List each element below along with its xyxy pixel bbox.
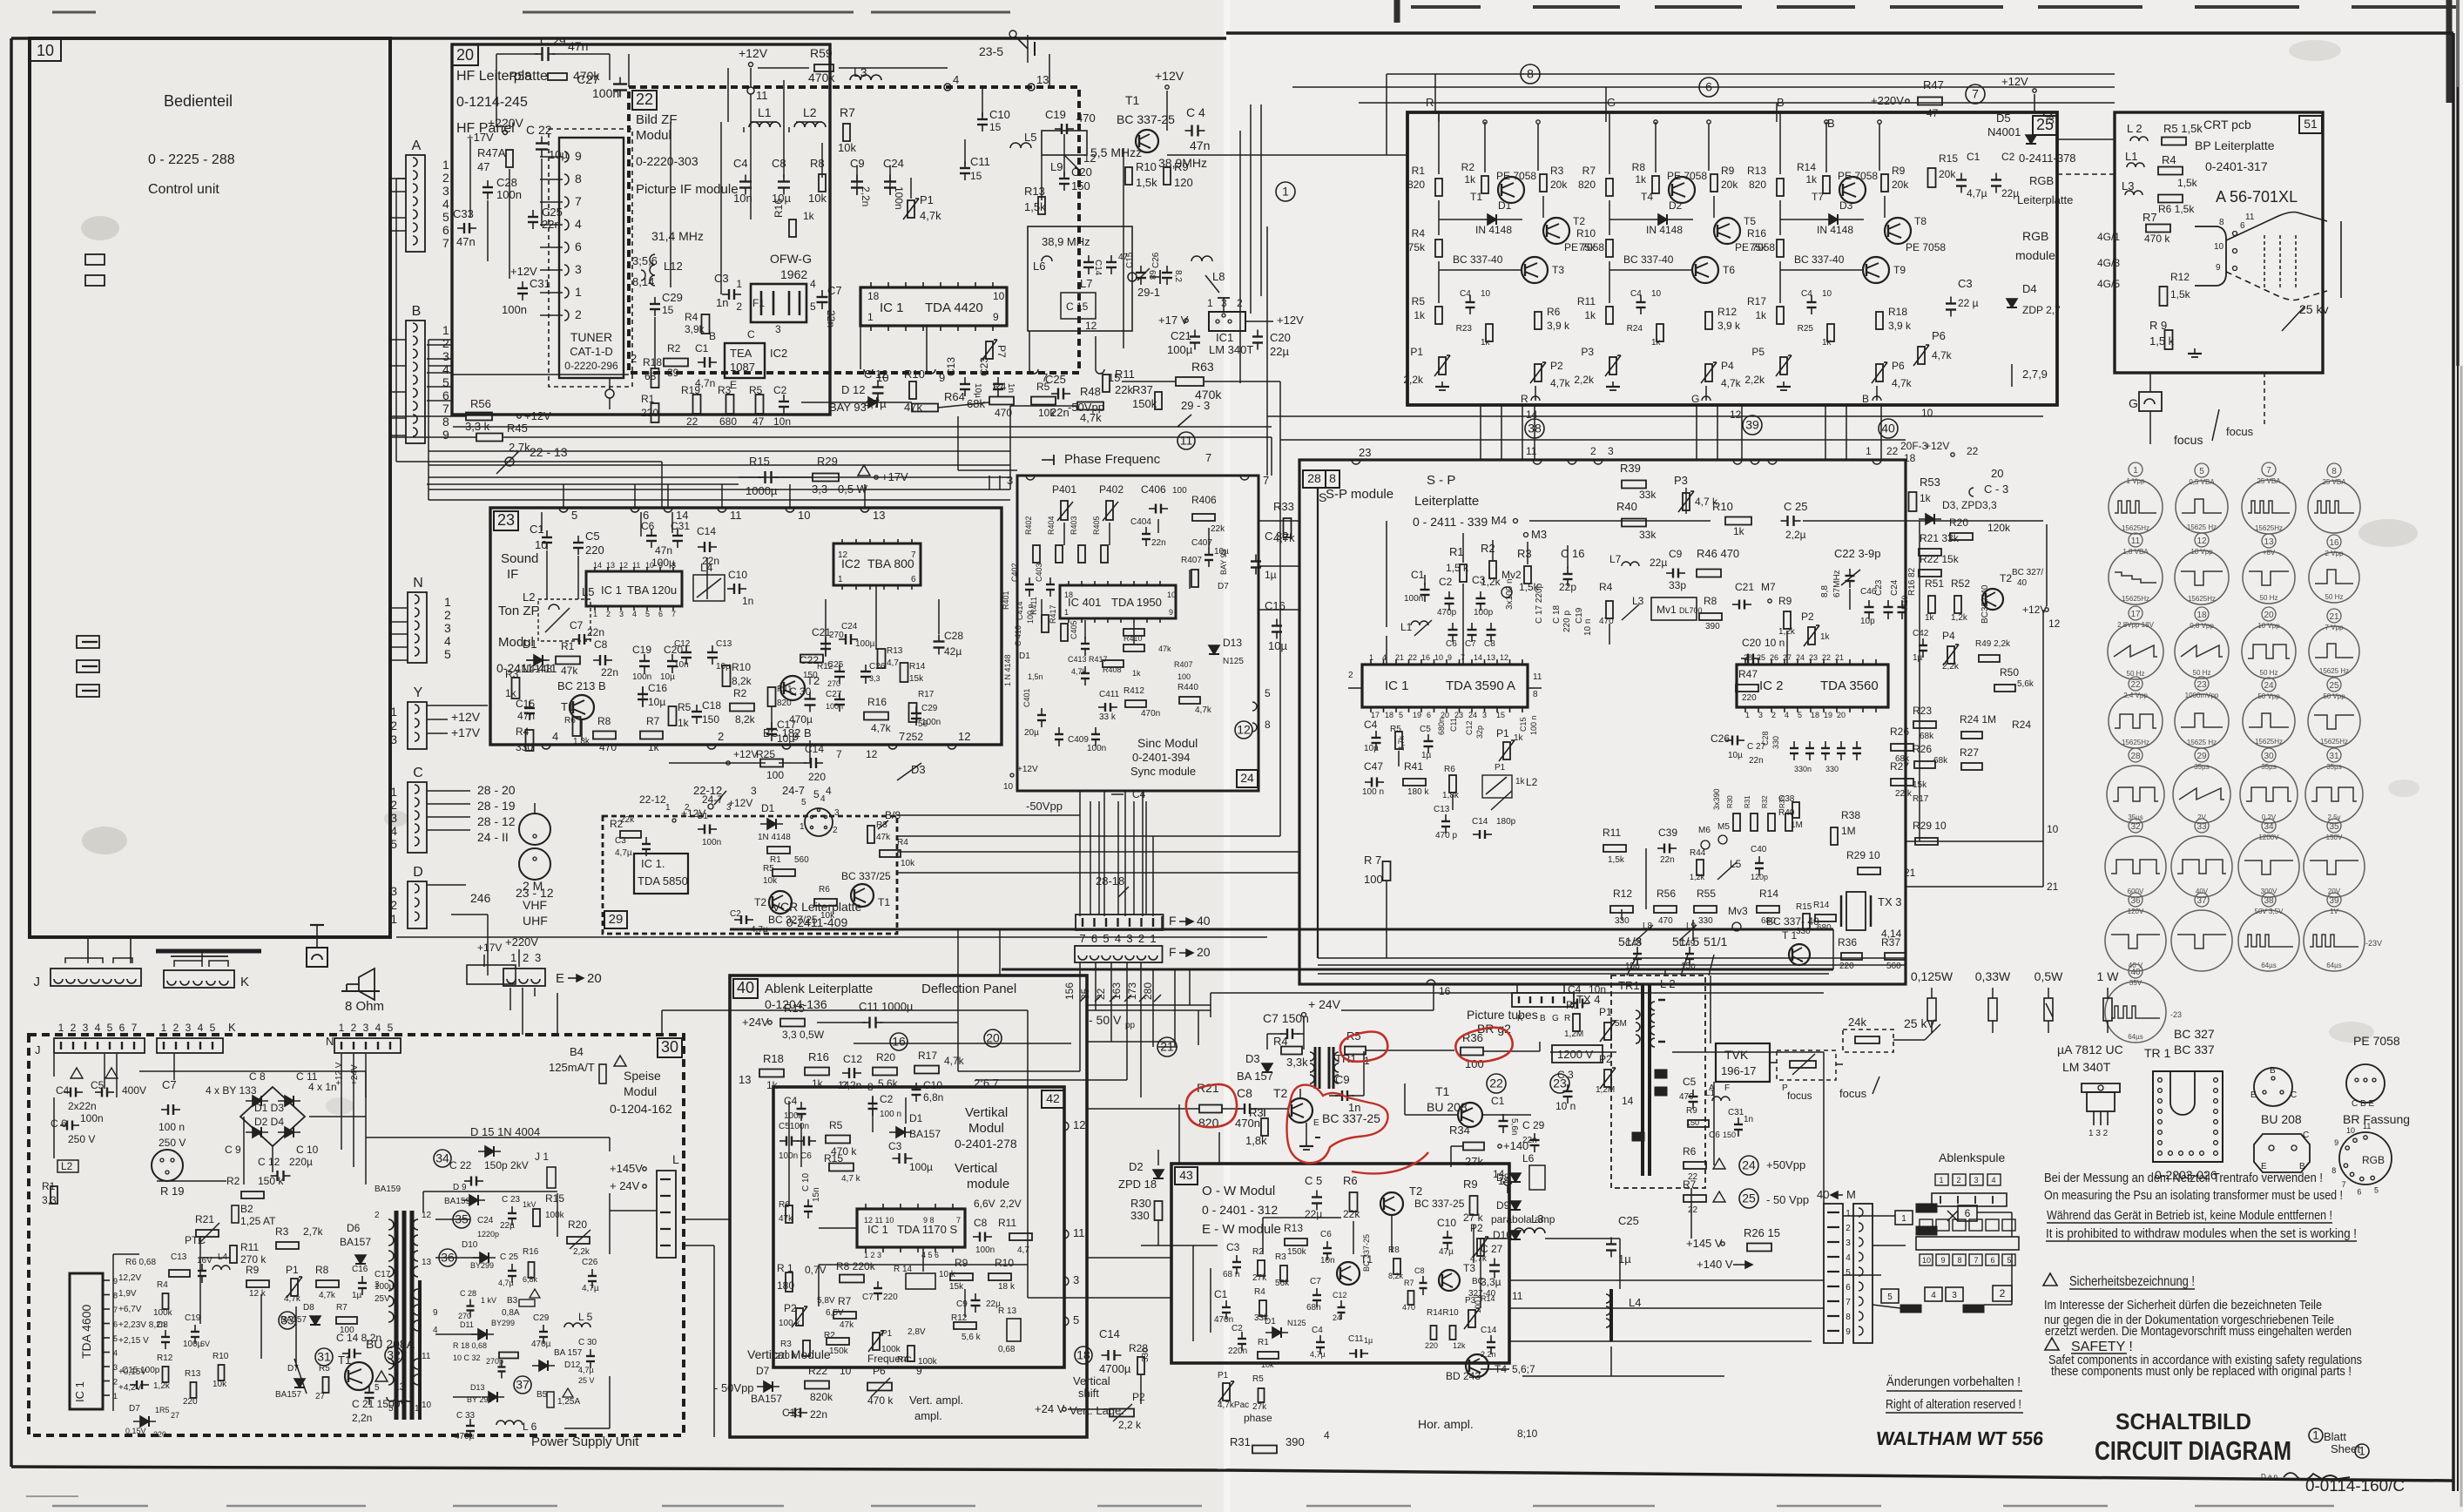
- svg-text:10k: 10k: [1038, 407, 1056, 419]
- IC1 TDA 1170 S: [857, 1209, 965, 1247]
- tuner bottom pin: [605, 389, 614, 398]
- svg-text:R51: R51: [1925, 577, 1944, 590]
- coil L1 crt: [2127, 163, 2144, 167]
- svg-text:R36: R36: [1838, 936, 1857, 948]
- svg-text:18: 18: [998, 1282, 1009, 1292]
- svg-text:3: 3: [1974, 1176, 1978, 1185]
- svg-text:Mv1: Mv1: [1657, 604, 1677, 616]
- svg-text:C27: C27: [826, 690, 842, 699]
- svg-text:C15: C15: [1519, 717, 1528, 732]
- C7 22n cap: [817, 296, 828, 298]
- wire from box10 to J: [87, 937, 89, 963]
- svg-text:R12: R12: [1717, 306, 1737, 318]
- svg-text:C: C: [413, 766, 423, 780]
- R410 R408 1k 47k cluster: [1124, 629, 1144, 636]
- wires HF panel to module 22: [496, 54, 497, 127]
- svg-text:22n: 22n: [587, 626, 604, 638]
- svg-text:IC 1: IC 1: [880, 300, 904, 315]
- svg-text:Hor. ampl.: Hor. ampl.: [1418, 1417, 1474, 1431]
- svg-text:IC2: IC2: [770, 347, 787, 360]
- HF panel internal verticals: [469, 139, 471, 218]
- R3 47k R4 10k: [867, 826, 874, 843]
- connector E-20: [503, 969, 545, 986]
- transistor T1 PE7058: [1498, 177, 1524, 203]
- svg-text:R10: R10: [1136, 160, 1157, 173]
- svg-text:L1: L1: [2125, 150, 2137, 163]
- svg-text:L2: L2: [803, 105, 817, 119]
- svg-text:TDA 4600: TDA 4600: [79, 1305, 93, 1359]
- svg-text:10: 10: [840, 1365, 852, 1377]
- svg-text:9: 9: [113, 1277, 118, 1286]
- svg-text:1R5: 1R5: [155, 1406, 170, 1414]
- svg-text:G: G: [1691, 393, 1699, 405]
- verticals into module 43: [1178, 1104, 1180, 1164]
- svg-text:220: 220: [1425, 1341, 1438, 1350]
- svg-text:3: 3: [363, 1022, 369, 1034]
- svg-text:C 29: C 29: [1522, 1119, 1545, 1131]
- svg-text:4: 4: [95, 1022, 101, 1034]
- svg-text:R24 1M: R24 1M: [1960, 713, 1996, 726]
- svg-text:T6: T6: [1723, 264, 1735, 276]
- svg-text:22-12: 22-12: [639, 793, 666, 806]
- svg-text:Sound: Sound: [501, 551, 538, 566]
- svg-text:L 6: L 6: [523, 1421, 537, 1433]
- svg-text:IC 2: IC 2: [1759, 678, 1784, 693]
- svg-text:ZDP 2,7: ZDP 2,7: [2022, 304, 2061, 316]
- svg-text:2: 2: [631, 352, 637, 365]
- svg-text:18: 18: [1811, 711, 1819, 719]
- svg-text:L3: L3: [2122, 179, 2134, 192]
- svg-text:2,2µ: 2,2µ: [1785, 529, 1806, 541]
- svg-text:1 Vpp: 1 Vpp: [2127, 477, 2145, 485]
- svg-text:N4001: N4001: [1987, 125, 2021, 138]
- svg-text:3,9 k: 3,9 k: [1888, 320, 1912, 332]
- svg-text:R9: R9: [1778, 595, 1792, 607]
- svg-text:C1: C1: [1491, 1095, 1505, 1107]
- svg-text:C 23: C 23: [502, 1195, 521, 1205]
- svg-text:R1: R1: [1449, 545, 1464, 558]
- module 43 internal wires: [1192, 1245, 1194, 1341]
- svg-text:150: 150: [702, 713, 719, 726]
- svg-text:270: 270: [458, 1312, 471, 1320]
- svg-text:R15: R15: [824, 1152, 843, 1164]
- connector F-40: [1076, 915, 1164, 930]
- svg-text:10n: 10n: [733, 192, 752, 205]
- svg-text:8,2k: 8,2k: [1388, 1272, 1404, 1280]
- horizontal trunk y960: [897, 835, 1280, 837]
- svg-text:P5: P5: [1751, 346, 1765, 358]
- +12V pins 1 2 3 labels: [672, 819, 676, 822]
- C7 22n: [578, 634, 580, 645]
- svg-text:Frequenc.: Frequenc.: [867, 1353, 914, 1365]
- waveform 8: [2327, 463, 2341, 477]
- svg-text:120k: 120k: [1987, 522, 2011, 534]
- svg-text:R16: R16: [808, 1050, 829, 1063]
- wire R5 to R36: [1366, 1050, 1454, 1051]
- svg-text:L4: L4: [700, 561, 712, 574]
- svg-text:5: 5: [1887, 1293, 1893, 1302]
- svg-text:10p: 10p: [1860, 617, 1875, 626]
- svg-text:25 V: 25 V: [578, 1376, 595, 1385]
- svg-text:1000µ: 1000µ: [746, 484, 778, 497]
- svg-text:7: 7: [1974, 1256, 1978, 1265]
- speaker 8 Ohm: [347, 969, 375, 1000]
- resistor R13 820: [1777, 179, 1784, 196]
- svg-text:L2: L2: [61, 1160, 73, 1172]
- svg-text:8;10: 8;10: [1517, 1428, 1538, 1440]
- svg-text:8: 8: [1533, 690, 1538, 699]
- svg-text:R4: R4: [157, 1280, 168, 1290]
- svg-text:100µ: 100µ: [909, 1161, 933, 1173]
- resistor R4 75k: [1435, 240, 1442, 257]
- C20 150: [1059, 178, 1070, 179]
- svg-text:R9: R9: [1892, 165, 1906, 177]
- svg-text:C 33: C 33: [456, 1411, 476, 1421]
- svg-text:C5: C5: [1683, 1076, 1697, 1088]
- svg-text:1,5k: 1,5k: [1136, 176, 1157, 189]
- svg-text:IC 1: IC 1: [867, 1223, 888, 1236]
- svg-text:3: 3: [1758, 711, 1763, 719]
- svg-text:T9: T9: [1893, 264, 1906, 276]
- svg-text:6V: 6V: [200, 1340, 210, 1348]
- svg-text:19: 19: [1413, 711, 1421, 719]
- svg-text:24: 24: [1333, 1313, 1341, 1322]
- svg-text:E: E: [1313, 1118, 1319, 1128]
- C12 2.2n: [848, 1068, 850, 1078]
- svg-text:LM 340T: LM 340T: [2062, 1060, 2111, 1074]
- HF panel box 20: [452, 44, 830, 415]
- svg-text:C11: C11: [970, 155, 990, 168]
- red circle around R21 820: [1186, 1084, 1237, 1127]
- svg-text:24: 24: [2264, 681, 2274, 691]
- svg-text:R41: R41: [1404, 760, 1423, 773]
- svg-text:L12: L12: [664, 260, 683, 273]
- resistor R14 1k: [1823, 176, 1830, 193]
- svg-text:7: 7: [113, 1306, 118, 1314]
- svg-text:5,6k: 5,6k: [2017, 679, 2035, 689]
- svg-text:29-1: 29-1: [1137, 286, 1160, 299]
- C25 C26 3.3 C27 100n cluster: [834, 671, 845, 672]
- waveform 17: [2129, 606, 2142, 620]
- verticals sync to F40 bundle: [1090, 801, 1091, 915]
- deflection panel box 40: [730, 975, 1087, 1437]
- svg-text:C22 3-9p: C22 3-9p: [1834, 547, 1880, 560]
- svg-text:BA157: BA157: [751, 1393, 782, 1405]
- svg-text:A: A: [412, 138, 422, 153]
- svg-text:1962: 1962: [780, 267, 807, 281]
- svg-text:42: 42: [1046, 1091, 1060, 1105]
- svg-text:330: 330: [516, 741, 533, 753]
- ground of group: [1441, 381, 1443, 387]
- svg-text:R410: R410: [1124, 634, 1143, 643]
- sync module internal wires: [1063, 523, 1065, 545]
- vertical shift cluster: [1075, 1347, 1092, 1364]
- svg-text:1: 1: [339, 1022, 345, 1034]
- VCR module dashed box 29: [603, 816, 897, 934]
- svg-text:3: 3: [1482, 711, 1487, 719]
- waveform 30: [2262, 748, 2276, 762]
- C14 22n: [704, 542, 705, 552]
- svg-text:23-5: 23-5: [979, 44, 1003, 58]
- long bus wires below module 22: [390, 415, 466, 417]
- svg-text:1n: 1n: [1006, 383, 1016, 393]
- svg-text:4: 4: [826, 785, 832, 797]
- tuner outer dashed box: [549, 129, 632, 387]
- svg-text:75k: 75k: [1750, 241, 1767, 253]
- svg-text:2: 2: [113, 1378, 118, 1387]
- potentiometer P1 2.2k: [1439, 357, 1446, 375]
- circled 38: [1525, 419, 1544, 438]
- svg-text:C409: C409: [1068, 735, 1089, 745]
- svg-text:0-2220-303: 0-2220-303: [636, 154, 698, 168]
- svg-text:B: B: [1777, 96, 1785, 109]
- svg-text:4,7k: 4,7k: [871, 722, 892, 734]
- svg-text:P1: P1: [1496, 727, 1509, 739]
- svg-text:5: 5: [1399, 711, 1403, 719]
- svg-text:R47: R47: [1923, 78, 1944, 91]
- svg-text:C25: C25: [1618, 1214, 1639, 1227]
- svg-text:4: 4: [1115, 932, 1121, 945]
- R48 4.7k: [1077, 402, 1103, 410]
- svg-text:C26: C26: [582, 1258, 598, 1267]
- svg-text:9: 9: [1846, 1327, 1851, 1337]
- waveform 21: [2327, 609, 2341, 623]
- TR1 dashed box: [1611, 975, 1705, 1188]
- svg-text:C4: C4: [1364, 719, 1378, 731]
- svg-text:R20: R20: [568, 1218, 587, 1231]
- svg-text:1,8 VBA: 1,8 VBA: [2122, 548, 2149, 556]
- svg-text:R19: R19: [681, 384, 700, 396]
- svg-text:C17: C17: [375, 1270, 391, 1279]
- svg-text:R16: R16: [1747, 227, 1766, 240]
- svg-text:5: 5: [1265, 687, 1271, 699]
- svg-text:25 kV: 25 kV: [1904, 1016, 1935, 1030]
- svg-text:7: 7: [1846, 1298, 1851, 1307]
- transistor T8 PE7058: [1885, 218, 1911, 244]
- svg-text:1: 1: [390, 785, 397, 799]
- svg-text:C20: C20: [1742, 637, 1761, 649]
- C8 100n R11 4.7: [979, 1232, 981, 1242]
- svg-text:C6: C6: [1446, 639, 1457, 649]
- svg-text:D7: D7: [129, 1404, 140, 1414]
- svg-text:1: 1: [510, 951, 516, 964]
- svg-text:2: 2: [375, 1211, 380, 1220]
- resistor R12 3.9k: [1705, 312, 1712, 329]
- svg-text:C10: C10: [1437, 1217, 1456, 1229]
- svg-text:C12: C12: [843, 1053, 862, 1065]
- L4 trimmer box: [693, 575, 725, 601]
- svg-text:10 n: 10 n: [1583, 619, 1593, 636]
- svg-text:2: 2: [1348, 671, 1353, 680]
- svg-text:R45: R45: [507, 422, 528, 435]
- svg-text:14: 14: [1622, 1095, 1634, 1107]
- long bus above hot cluster: [1211, 992, 1824, 994]
- svg-text:Ablenkspule: Ablenkspule: [1939, 1151, 2005, 1164]
- svg-text:51/ 5: 51/ 5: [1672, 935, 1699, 948]
- svg-text:470p: 470p: [1437, 608, 1457, 618]
- svg-text:5: 5: [390, 837, 397, 851]
- waveform 35: [2327, 819, 2341, 833]
- svg-text:R4: R4: [516, 726, 530, 738]
- svg-text:C1: C1: [695, 342, 709, 354]
- svg-text:3: 3: [444, 621, 451, 635]
- resistor R8 1k: [1652, 176, 1659, 193]
- svg-text:40: 40: [737, 979, 754, 996]
- svg-text:9: 9: [433, 1308, 438, 1318]
- svg-text:22µ: 22µ: [1305, 1208, 1322, 1220]
- svg-text:Sicherheitsbezeichnung !: Sicherheitsbezeichnung !: [2069, 1274, 2195, 1289]
- svg-text:3,3µ: 3,3µ: [1481, 1276, 1501, 1288]
- svg-text:2: 2: [1138, 932, 1144, 945]
- svg-text:TBA 120u: TBA 120u: [627, 584, 677, 597]
- R13 1.5k: [1038, 197, 1045, 214]
- svg-text:0-2411-378: 0-2411-378: [2019, 152, 2076, 165]
- svg-text:T1: T1: [561, 700, 574, 713]
- svg-text:C 16: C 16: [1561, 547, 1584, 560]
- svg-text:470 k: 470 k: [2144, 233, 2170, 245]
- svg-text:2: 2: [442, 336, 449, 350]
- svg-text:2: 2: [351, 1022, 357, 1034]
- svg-text:4,7k: 4,7k: [1273, 531, 1295, 544]
- svg-text:BC 337-40: BC 337-40: [1453, 253, 1503, 266]
- R19 mains plug circle: [152, 1150, 183, 1181]
- svg-text:56: 56: [918, 719, 928, 729]
- svg-text:15625Hz: 15625Hz: [2255, 524, 2283, 532]
- svg-text:9: 9: [1447, 653, 1452, 662]
- svg-text:28 - 12: 28 - 12: [477, 814, 516, 828]
- svg-text:40: 40: [2017, 578, 2028, 588]
- waveform 36: [2129, 893, 2142, 907]
- svg-text:RGB: RGB: [2362, 1154, 2385, 1166]
- svg-text:G: G: [1552, 1014, 1559, 1023]
- svg-text:196-17: 196-17: [1721, 1064, 1756, 1077]
- svg-text:2: 2: [685, 803, 690, 813]
- svg-text:5: 5: [442, 210, 449, 224]
- svg-text:4,7µ: 4,7µ: [615, 848, 632, 858]
- svg-text:8: 8: [2219, 218, 2224, 227]
- svg-text:R50: R50: [2000, 666, 2019, 678]
- svg-text:15625Hz: 15625Hz: [2188, 595, 2216, 603]
- C11 1000u: [868, 1017, 870, 1029]
- svg-text:68: 68: [644, 370, 657, 382]
- svg-text:R44: R44: [1690, 848, 1706, 858]
- svg-text:40: 40: [1817, 1188, 1829, 1201]
- transistor T2 BC327/40: [1982, 589, 2003, 610]
- svg-text:R49 2,2k: R49 2,2k: [1975, 639, 2011, 649]
- svg-text:C23: C23: [978, 357, 990, 376]
- svg-text:150 k: 150 k: [258, 1175, 284, 1187]
- waveform 33: [2195, 819, 2209, 833]
- C19 470 trimmer L9 5.5MHz: [1061, 124, 1063, 134]
- svg-text:1k: 1k: [1464, 173, 1476, 186]
- C15 C26 L8 right cluster: [1136, 272, 1146, 273]
- svg-text:R3: R3: [1275, 1252, 1286, 1262]
- svg-text:27k: 27k: [1465, 1155, 1483, 1168]
- svg-text:P4: P4: [1942, 630, 1955, 642]
- svg-text:R24: R24: [2012, 719, 2031, 731]
- svg-text:22 k: 22 k: [1895, 789, 1913, 799]
- svg-text:7: 7: [442, 402, 449, 415]
- C12 4.7u R10 47k: [873, 386, 884, 388]
- svg-text:1µ: 1µ: [1913, 653, 1923, 663]
- svg-text:6: 6: [911, 575, 916, 584]
- svg-text:0-1214-245: 0-1214-245: [456, 95, 528, 110]
- svg-text:T1: T1: [1435, 1084, 1450, 1098]
- svg-text:3: 3: [1073, 1273, 1079, 1286]
- svg-text:R47A: R47A: [477, 146, 506, 159]
- svg-text:16: 16: [2329, 538, 2339, 548]
- svg-text:100 n: 100 n: [1362, 787, 1384, 797]
- svg-text:1,5k: 1,5k: [1608, 855, 1625, 865]
- svg-text:P401: P401: [1052, 483, 1076, 496]
- svg-text:25 kv: 25 kv: [2299, 302, 2328, 316]
- svg-text:10: 10: [1003, 782, 1014, 792]
- svg-text:TVK: TVK: [1724, 1048, 1749, 1062]
- svg-text:focus: focus: [1787, 1090, 1812, 1102]
- svg-text:1: 1: [800, 822, 805, 832]
- svg-text:0,68: 0,68: [998, 1345, 1016, 1354]
- svg-text:15: 15: [989, 121, 1002, 133]
- svg-text:R13: R13: [1284, 1222, 1303, 1234]
- svg-text:T3: T3: [1463, 1262, 1475, 1274]
- potentiometer P4 4.7k: [1705, 364, 1712, 381]
- svg-text:330: 330: [1698, 916, 1713, 926]
- svg-text:22: 22: [2130, 680, 2141, 690]
- svg-text:R: R: [1564, 1014, 1570, 1023]
- svg-text:-50Vpp: -50Vpp: [1026, 800, 1063, 813]
- svg-text:22n: 22n: [1749, 756, 1764, 766]
- svg-text:2: 2: [1771, 711, 1776, 719]
- svg-text:+12V: +12V: [510, 265, 537, 278]
- resistor R9 20k: [1881, 174, 1888, 192]
- svg-text:21: 21: [1395, 653, 1404, 662]
- svg-text:C21: C21: [812, 626, 831, 638]
- svg-text:R7: R7: [1582, 165, 1596, 177]
- svg-text:100n: 100n: [826, 702, 843, 711]
- svg-text:BA 157: BA 157: [554, 1348, 583, 1358]
- svg-text:5: 5: [388, 1022, 394, 1034]
- svg-text:D2: D2: [1129, 1160, 1144, 1173]
- wires module23 top pins up: [563, 484, 564, 508]
- potentiometer P5 2.2k: [1780, 357, 1787, 375]
- svg-text:P1: P1: [1410, 346, 1423, 358]
- IC1 TBA 120u: [586, 571, 682, 606]
- focus pot dashed: [1777, 1050, 1836, 1080]
- focus wire from box: [2264, 373, 2265, 427]
- wires 40M area: [1843, 1215, 1895, 1217]
- D1 BA157 defl: [896, 1127, 905, 1137]
- svg-text:13: 13: [1487, 653, 1495, 662]
- circled 39: [1743, 415, 1762, 435]
- svg-text:+12V: +12V: [1277, 314, 1304, 327]
- svg-text:IC 1: IC 1: [73, 1381, 86, 1402]
- svg-text:6: 6: [1705, 80, 1712, 94]
- PSU bottom bus: [53, 1054, 55, 1077]
- svg-text:2: 2: [1590, 445, 1596, 457]
- svg-text:1: 1: [736, 278, 742, 290]
- svg-text:R14: R14: [1797, 161, 1816, 173]
- svg-text:1: 1: [390, 705, 397, 719]
- svg-text:173: 173: [1126, 982, 1138, 1000]
- svg-text:470: 470: [1402, 1303, 1415, 1312]
- svg-text:5: 5: [210, 1022, 216, 1034]
- connector C: [408, 782, 427, 853]
- transistor T5 PE7058: [1714, 218, 1740, 244]
- svg-text:TEA: TEA: [730, 347, 752, 360]
- svg-text:8: 8: [1957, 1256, 1961, 1265]
- svg-text:50 Hz: 50 Hz: [2193, 669, 2211, 677]
- svg-text:C24: C24: [883, 157, 904, 170]
